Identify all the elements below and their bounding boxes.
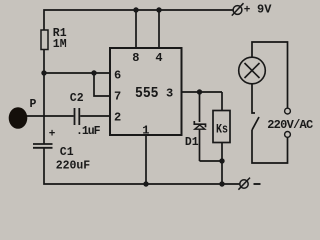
svg-text:Ks: Ks: [216, 122, 228, 136]
svg-text:3: 3: [166, 87, 173, 101]
svg-text:220V/AC: 220V/AC: [267, 118, 313, 132]
svg-text:4: 4: [155, 51, 162, 65]
svg-text:2: 2: [114, 111, 121, 125]
svg-text:.1uF: .1uF: [76, 125, 101, 138]
svg-text:C1: C1: [60, 146, 74, 159]
svg-text:C2: C2: [70, 92, 84, 105]
svg-text:1: 1: [142, 123, 149, 137]
svg-text:+: +: [244, 4, 251, 16]
svg-text:555: 555: [135, 86, 159, 102]
svg-text:D1: D1: [185, 136, 199, 149]
svg-text:8: 8: [132, 51, 139, 65]
svg-text:P: P: [30, 98, 37, 111]
svg-text:220uF: 220uF: [56, 160, 90, 173]
svg-text:9V: 9V: [257, 3, 272, 17]
svg-text:+: +: [49, 128, 56, 140]
svg-text:7: 7: [114, 90, 121, 104]
svg-text:1M: 1M: [53, 38, 67, 51]
svg-text:6: 6: [114, 68, 121, 82]
